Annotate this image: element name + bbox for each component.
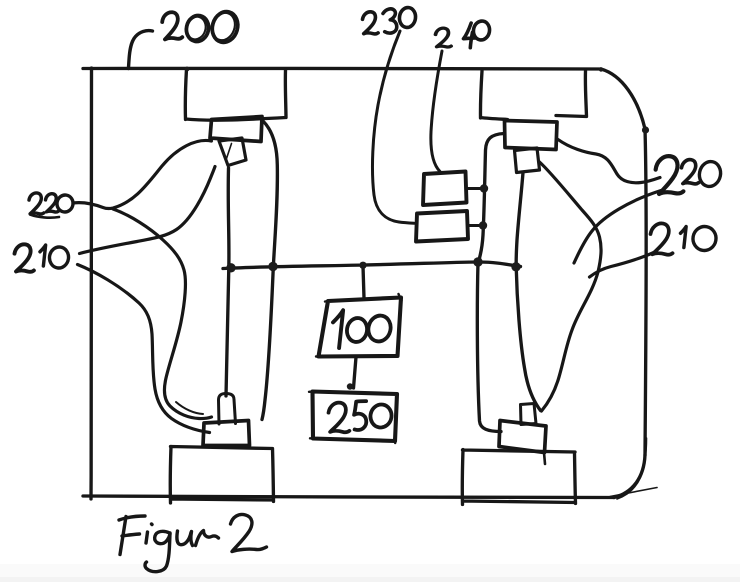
caption Figur 2 — [119, 514, 267, 571]
label 250 — [329, 401, 394, 432]
wire front-right encoder long S to rear-right — [540, 162, 602, 411]
wheel front-left — [185, 69, 286, 120]
label 210 right — [651, 223, 718, 254]
box 250 — [313, 392, 398, 442]
label 200 leader — [129, 31, 153, 69]
junction top border corner — [599, 67, 603, 71]
signal bus — [223, 262, 521, 269]
junction right border — [642, 126, 649, 133]
label 240 leader — [431, 51, 442, 172]
junction bus-left-1 — [226, 263, 235, 272]
control unit 100 corner ticks — [316, 294, 402, 357]
wire 220 left lower branch — [113, 209, 212, 419]
label 240 — [436, 20, 492, 48]
encoder front-left — [219, 138, 246, 166]
label 230 — [363, 6, 417, 33]
wheel rear-left — [170, 447, 273, 504]
wire front-right sensor to bus (with box taps) — [479, 134, 505, 262]
label 200 — [162, 9, 242, 46]
junction bus-left-2 — [268, 262, 277, 271]
wheel front-right — [480, 71, 586, 120]
vehicle outline 200 left border — [89, 68, 93, 499]
wire 220 left leader — [73, 140, 212, 208]
label 100 — [333, 310, 393, 348]
encoder rear-right — [521, 404, 537, 425]
junction bus-right-2 — [511, 262, 520, 271]
junction box 230 tap — [479, 221, 487, 229]
label 210 right tail flourish — [590, 252, 657, 278]
sensor rear-right tail — [544, 453, 545, 465]
box 240 (upper) — [423, 172, 467, 206]
junction wheel front-left — [185, 67, 190, 72]
wire 220 left lower branch double stroke — [176, 402, 203, 414]
junction bus-middle — [359, 262, 366, 269]
box 250 connector — [354, 357, 357, 388]
wire 220 right leader — [558, 140, 660, 183]
encoder rear-left — [219, 394, 236, 425]
box 230 tap — [468, 224, 483, 227]
box 250 corner ticks — [309, 391, 395, 443]
vehicle outline 200 top-right corner — [601, 69, 645, 129]
wire 210 left upper — [80, 167, 216, 254]
label 220 left — [29, 193, 74, 218]
vehicle outline 200 bottom border — [83, 496, 614, 498]
wire 210 left lower — [78, 265, 210, 433]
control unit 100 connector — [363, 266, 364, 298]
sensor front-right — [505, 121, 558, 150]
vehicle outline 200 bottom-right corner — [614, 455, 645, 498]
encoder front-left inner stroke — [227, 144, 232, 159]
vehicle outline 200 corner tail — [610, 488, 657, 497]
label 210 left — [15, 244, 70, 272]
wire front-left sensor to bus to rear-left sensor — [262, 121, 277, 420]
vehicle outline 200 top border — [83, 68, 601, 69]
sensor front-left — [210, 117, 262, 142]
wire front-right encoder to bus to rear-right — [516, 173, 540, 411]
wire bus to rear-right sensor — [477, 263, 501, 432]
junction box 240 tap — [480, 184, 488, 192]
label 220 right tail flourish — [574, 191, 661, 264]
sensor rear-left — [203, 421, 250, 446]
sensor rear-right — [499, 421, 546, 453]
box 230 (lower) — [416, 211, 468, 242]
encoder front-right — [515, 148, 540, 173]
vehicle outline 200 right border — [645, 129, 646, 455]
wire front-left encoder to bus to rear-left encoder — [226, 168, 229, 396]
label 230 leader — [372, 31, 414, 223]
vehicle outline 200 corner double stroke — [617, 438, 647, 499]
junction 250 connector — [347, 383, 353, 389]
box 240 tap — [466, 187, 484, 190]
junction bus-right-1 — [473, 257, 482, 266]
control unit 100 — [319, 298, 402, 357]
label 220 right — [655, 155, 723, 194]
wheel rear-right — [462, 450, 575, 505]
